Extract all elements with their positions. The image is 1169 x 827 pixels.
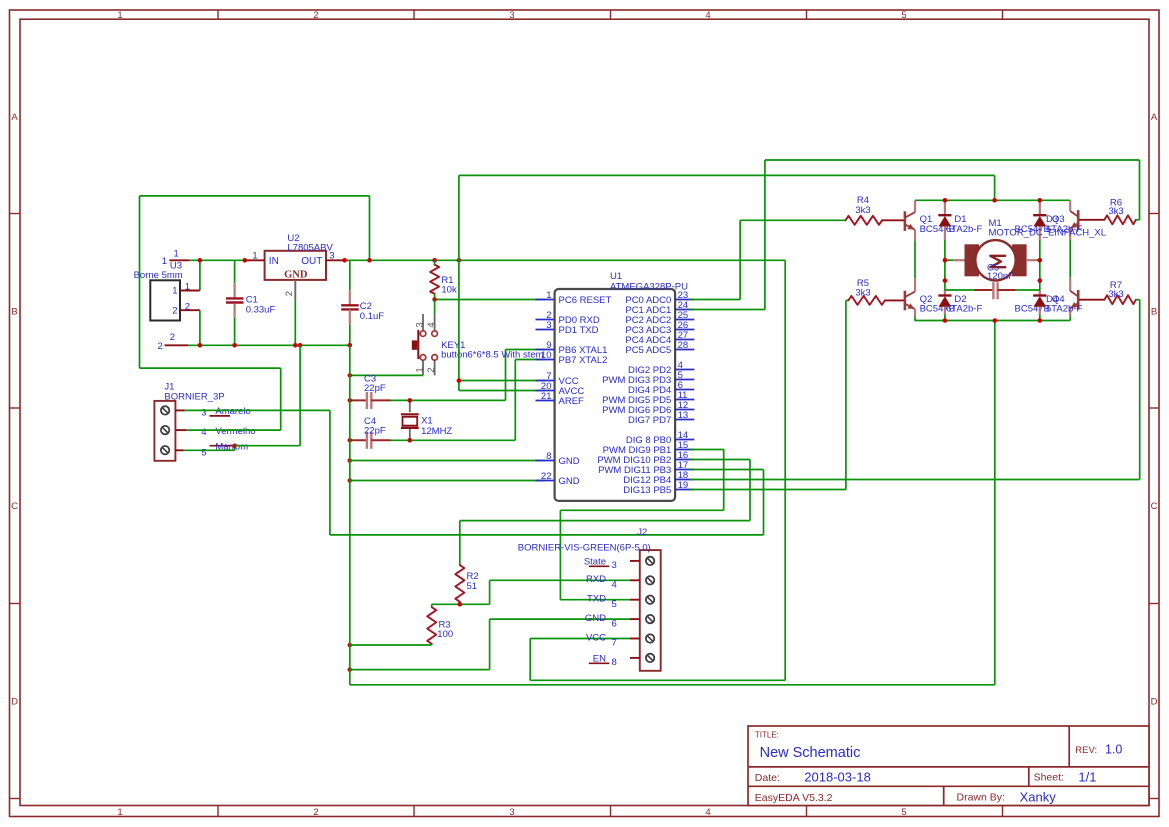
svg-text:2: 2: [313, 807, 318, 818]
svg-text:3: 3: [612, 560, 617, 571]
svg-text:MOTOR_DC_EINFACH_XL: MOTOR_DC_EINFACH_XL: [989, 228, 1107, 239]
junction dots +VIN/GND rails: [198, 258, 203, 263]
crystal X1 12MHZ: [409, 400, 411, 412]
svg-text:IN: IN: [269, 256, 279, 267]
wire KEY1 pin1 to GND bus: [350, 374, 423, 376]
diode D4: [1039, 260, 1041, 290]
U1 pin 25 PC2 ADC2: [675, 319, 694, 321]
svg-text:8: 8: [612, 657, 617, 668]
svg-text:2: 2: [284, 291, 295, 296]
svg-text:21: 21: [541, 391, 552, 402]
wire PC0 pin23 to R4: [690, 299, 740, 301]
svg-text:1.0: 1.0: [1105, 743, 1122, 757]
title block: [748, 726, 1149, 806]
svg-text:2: 2: [158, 341, 163, 352]
net label State: [589, 565, 610, 567]
resistor R6 3k3: [1079, 219, 1104, 221]
svg-text:B: B: [1151, 306, 1157, 317]
wire J1 pin3 Amarelo to PB3 net: [185, 409, 330, 411]
svg-text:C: C: [1151, 501, 1158, 512]
svg-text:2: 2: [170, 332, 175, 343]
wire loop to J1 pin4 horizontal: [140, 367, 281, 369]
svg-text:4: 4: [201, 427, 206, 438]
svg-text:VCC: VCC: [586, 632, 606, 643]
svg-text:3: 3: [509, 807, 514, 818]
svg-text:C: C: [11, 501, 18, 512]
svg-text:7: 7: [612, 638, 617, 649]
svg-text:X1: X1: [421, 415, 433, 426]
U1 pin 18 DIG12 PB4: [675, 479, 694, 481]
wire Q1 emitter to Q2 collector: [914, 240, 916, 278]
svg-text:D: D: [11, 697, 18, 708]
U1 pin 19 DIG13 PB5: [675, 489, 694, 491]
svg-text:2: 2: [172, 305, 177, 316]
svg-text:3: 3: [509, 10, 514, 21]
wire PB1 pin15 to TXD: [690, 449, 724, 451]
wire +5V loop drop to rail: [369, 196, 371, 260]
wire OUT +5V rail: [345, 259, 786, 261]
wire AVCC to pin20: [459, 390, 545, 392]
wire C3 to XTAL1 pin9: [391, 399, 506, 401]
J2 screw terminal pin 4: [646, 576, 654, 584]
svg-text:GND: GND: [585, 613, 606, 624]
transistor Q1 BC547B: [914, 200, 916, 212]
wire R3 bottom to GND bus: [350, 644, 432, 646]
motor M1 MOTOR_DC_EINFACH_XL: [945, 259, 953, 261]
svg-text:Borne 5mm: Borne 5mm: [134, 270, 183, 281]
svg-text:6TA2b-F: 6TA2b-F: [946, 224, 982, 235]
diode D2: [944, 260, 946, 290]
wire loose input pin 1: [169, 259, 189, 261]
svg-text:J2: J2: [637, 527, 647, 538]
svg-text:1: 1: [172, 286, 177, 297]
svg-text:Drawn By:: Drawn By:: [957, 792, 1005, 804]
wire PB4 pin18 to R7: [690, 479, 1140, 481]
svg-text:B: B: [11, 306, 17, 317]
svg-text:1: 1: [252, 250, 257, 261]
svg-text:Sheet:: Sheet:: [1034, 772, 1064, 784]
J2 screw terminal pin 6: [646, 615, 654, 623]
MCU U1 ATMEGA328P-PU body: [555, 289, 676, 501]
svg-text:12MHZ: 12MHZ: [421, 426, 452, 437]
capacitor C4 22pF: [350, 439, 367, 441]
svg-text:DIG13 PB5: DIG13 PB5: [623, 485, 671, 496]
wire PB2 pin16 to R2: [690, 459, 750, 461]
U1 pin 17 PWM DIG11 PB3: [675, 469, 694, 471]
J1 screw terminal 1: [161, 406, 169, 414]
svg-text:BORNIER-VIS-GREEN(6P-5.0): BORNIER-VIS-GREEN(6P-5.0): [518, 543, 651, 554]
wire U3 pin1 to +VIN rail: [199, 260, 201, 290]
J1 pin 5 lead: [175, 449, 183, 451]
U1 pin 5 PWM DIG3 PD3: [675, 379, 694, 381]
wire GND bottom run: [350, 684, 995, 686]
U1 pin 15 PWM DIG9 PB1: [675, 449, 694, 451]
wire RESET net R1 to pin1: [435, 299, 545, 301]
U1 pin 24 PC1 ADC1: [675, 309, 694, 311]
regulator U2 pin 2 GND: [294, 280, 296, 300]
svg-text:4: 4: [426, 322, 437, 327]
J1 pin 4 lead: [175, 429, 186, 431]
svg-text:A: A: [1151, 112, 1158, 123]
svg-text:3: 3: [201, 408, 206, 419]
svg-text:D: D: [1151, 697, 1158, 708]
junction dots GND bus / xtal: [348, 373, 353, 378]
U1 pin 3 PD1 TXD: [536, 329, 555, 331]
svg-text:3: 3: [415, 322, 426, 327]
svg-text:100: 100: [437, 629, 453, 640]
U1 pin 10 PB7 XTAL2: [536, 359, 555, 361]
bridge top rail: [915, 199, 1070, 201]
svg-text:1: 1: [415, 367, 426, 372]
svg-text:New Schematic: New Schematic: [760, 745, 861, 761]
svg-text:5: 5: [201, 447, 206, 458]
U1 pin 27 PC4 ADC4: [675, 339, 694, 341]
svg-text:0.33uF: 0.33uF: [246, 304, 276, 315]
wire U2 GND pin to rail: [294, 300, 296, 345]
wire GND to J2 pin6: [490, 618, 630, 620]
svg-text:2: 2: [185, 301, 190, 312]
wire C4 to XTAL2 pin10: [391, 439, 516, 441]
svg-text:PC6 RESET: PC6 RESET: [559, 295, 612, 306]
diode D1: [944, 200, 946, 215]
wire TXD to J2: [560, 599, 630, 601]
net label Marrom: [210, 445, 235, 447]
resistor R4 3k3: [846, 216, 883, 225]
svg-text:1: 1: [174, 249, 179, 260]
svg-text:State: State: [584, 557, 606, 568]
transistor Q3 BC547B: [1069, 200, 1071, 211]
wire R1 to KEY1 pin4: [434, 300, 436, 315]
resistor R3 100: [427, 607, 436, 644]
svg-text:EasyEDA V5.3.2: EasyEDA V5.3.2: [755, 792, 833, 804]
svg-text:PB7 XTAL2: PB7 XTAL2: [559, 355, 608, 366]
svg-text:4: 4: [705, 807, 710, 818]
wire PB5 pin19 to R5: [690, 489, 846, 491]
connector U3 Borne 5mm body: [150, 280, 180, 320]
svg-text:RXD: RXD: [586, 574, 606, 585]
svg-text:PD1 TXD: PD1 TXD: [559, 325, 599, 336]
svg-text:Amarelo: Amarelo: [215, 406, 250, 417]
connector U3 pin 2: [180, 309, 200, 311]
J1 screw terminal 3: [161, 446, 169, 454]
svg-text:10: 10: [541, 350, 552, 361]
svg-text:3k3: 3k3: [855, 288, 870, 299]
wire +VIN rail: [189, 259, 245, 261]
wire J1 pin4 Vermelho: [186, 429, 280, 431]
U1 pin 12 PWM DIG6 PD6: [675, 409, 694, 411]
connector J2 BORNIER-VIS-GREEN body: [640, 550, 661, 671]
U1 pin 2 PD0 RXD: [536, 319, 555, 321]
wire VCC to pin7: [459, 380, 545, 382]
J1 screw terminal 2: [161, 426, 169, 434]
wire loop to J1 pin4 vertical: [280, 368, 282, 430]
J1 pin 3 lead: [175, 409, 184, 411]
svg-text:5: 5: [901, 807, 906, 818]
U1 pin 16 PWM DIG10 PB2: [675, 459, 694, 461]
diode D3: [1039, 200, 1041, 215]
wire PB3 pin17: [690, 469, 764, 471]
svg-text:5: 5: [901, 10, 906, 21]
frame row ticks left: [10, 213, 21, 215]
wire J1 pin5 Marrom to GND: [184, 449, 235, 451]
transistor Q4 BC547B: [1069, 278, 1071, 291]
svg-text:3k3: 3k3: [855, 205, 870, 216]
U1 pin 7 VCC: [536, 380, 555, 382]
svg-text:6TA2b-F: 6TA2b-F: [1046, 304, 1082, 315]
svg-text:OUT: OUT: [301, 256, 322, 267]
svg-text:22: 22: [541, 471, 552, 482]
svg-text:51: 51: [467, 581, 478, 592]
resistor R2 51: [455, 565, 464, 602]
svg-text:TXD: TXD: [587, 594, 606, 605]
U1 pin 14 DIG 8 PB0: [675, 439, 694, 441]
transistor Q2 BC547B: [914, 278, 916, 292]
svg-text:1: 1: [546, 290, 551, 301]
svg-text:1: 1: [162, 256, 167, 267]
svg-text:3: 3: [329, 250, 334, 261]
U1 pin 6 DIG4 PD4: [675, 389, 694, 391]
svg-text:PC5 ADC5: PC5 ADC5: [625, 345, 671, 356]
U1 pin 28 PC5 ADC5: [675, 349, 694, 351]
svg-text:DIG7 PD7: DIG7 PD7: [628, 415, 671, 426]
U1 pin 4 DIG2 PD2: [675, 369, 694, 371]
wire U3 pin2 to GND rail: [199, 310, 201, 345]
wire loose input pin 2: [165, 344, 189, 346]
U1 pin 1 PC6 RESET: [536, 299, 555, 301]
connector U3 pin 1: [180, 290, 200, 292]
wire VCC rail drop to J2 VCC: [784, 260, 786, 680]
resistor R7 3k3: [1079, 299, 1104, 301]
net label Amarelo: [210, 415, 231, 417]
svg-text:13: 13: [678, 410, 689, 421]
wire Vermelho +5V loop top: [140, 195, 370, 197]
junction dots bridge: [943, 198, 948, 203]
svg-text:3: 3: [546, 320, 551, 331]
capacitor C3 22pF: [350, 399, 367, 401]
wire Vermelho +5V loop left: [139, 196, 141, 368]
svg-text:A: A: [11, 112, 18, 123]
wire +5V to bridge top: [458, 175, 460, 260]
wire R2/R3 node to RXD: [432, 603, 490, 605]
svg-text:2: 2: [426, 367, 437, 372]
svg-text:ATMEGA328P-PU: ATMEGA328P-PU: [610, 281, 688, 292]
svg-text:5: 5: [612, 599, 617, 610]
svg-text:TITLE:: TITLE:: [755, 731, 779, 740]
U1 pin 23 PC0 ADC0: [675, 299, 694, 301]
U1 pin 8 GND: [536, 460, 555, 462]
frame row ticks right: [1149, 213, 1159, 215]
U1 pin 22 GND: [536, 480, 555, 482]
wire GND to pin8: [350, 460, 545, 462]
svg-text:1: 1: [185, 282, 190, 293]
regulator U2 pin 1 IN: [245, 259, 265, 261]
svg-text:4: 4: [612, 580, 617, 591]
svg-text:22pF: 22pF: [364, 426, 386, 437]
svg-text:1: 1: [117, 10, 122, 21]
svg-text:2018-03-18: 2018-03-18: [804, 770, 871, 785]
svg-text:28: 28: [678, 340, 689, 351]
pushbutton KEY1: [422, 314, 424, 331]
U1 pin 11 PWM DIG5 PD5: [675, 399, 694, 401]
svg-text:10k: 10k: [441, 284, 457, 295]
U1 pin 20 AVCC: [536, 390, 555, 392]
GND bus vertical: [349, 345, 351, 685]
svg-text:Date:: Date:: [755, 772, 780, 784]
svg-text:REV:: REV:: [1075, 745, 1097, 756]
U1 pin 26 PC3 ADC3: [675, 329, 694, 331]
wire GND to pin22: [350, 480, 545, 482]
net label EN: [589, 662, 610, 664]
connector J1 BORNIER_3P body: [154, 401, 175, 461]
svg-text:6: 6: [612, 618, 617, 629]
wire GND rail: [188, 344, 350, 346]
svg-text:BORNIER_3P: BORNIER_3P: [164, 391, 224, 402]
resistor R1 10k: [430, 265, 439, 294]
svg-text:0.1uF: 0.1uF: [360, 311, 384, 322]
regulator U2 L7805ABV body: [265, 251, 326, 280]
U1 pin 13 DIG7 PD7: [675, 419, 694, 421]
resistor R5 3k3: [848, 296, 885, 305]
J2 screw terminal pin 8: [646, 654, 654, 662]
svg-text:EN: EN: [593, 654, 606, 665]
frame column ticks top: [217, 10, 219, 19]
svg-text:1: 1: [117, 807, 122, 818]
regulator U2 pin 3 OUT: [326, 259, 345, 261]
J2 screw terminal pin 5: [646, 596, 654, 604]
U1 pin 21 AREF: [536, 400, 555, 402]
J2 screw terminal pin 7: [646, 634, 654, 642]
svg-text:4: 4: [705, 10, 710, 21]
svg-text:AREF: AREF: [559, 396, 585, 407]
svg-text:6TA2b-F: 6TA2b-F: [946, 304, 982, 315]
wire VCC branch vertical: [458, 260, 460, 390]
wire PC1 pin24 to R6: [690, 309, 765, 311]
svg-text:120nF: 120nF: [987, 271, 1014, 282]
svg-text:3k3: 3k3: [1108, 289, 1123, 300]
capacitor C1 0.33uF: [234, 260, 236, 283]
frame column ticks bottom: [217, 806, 219, 817]
J2 screw terminal pin 3: [646, 557, 654, 565]
svg-text:GND: GND: [559, 456, 580, 467]
svg-text:3k3: 3k3: [1108, 206, 1123, 217]
bridge bottom rail: [915, 320, 1071, 322]
svg-text:2: 2: [313, 10, 318, 21]
svg-text:8: 8: [546, 451, 551, 462]
svg-text:Vermelho: Vermelho: [215, 426, 255, 437]
capacitor C2 0.1uF: [349, 260, 351, 290]
svg-text:19: 19: [678, 480, 689, 491]
svg-text:Xanky: Xanky: [1020, 789, 1057, 804]
wire Q3 emitter to Q4 collector: [1069, 240, 1071, 278]
svg-text:GND: GND: [284, 270, 308, 281]
U1 pin 9 PB6 XTAL1: [536, 349, 555, 351]
svg-text:GND: GND: [559, 476, 580, 487]
capacitor C5 120nF: [945, 289, 975, 291]
svg-text:L7805ABV: L7805ABV: [287, 242, 333, 253]
svg-text:22pF: 22pF: [364, 383, 386, 394]
svg-text:1/1: 1/1: [1078, 769, 1096, 784]
